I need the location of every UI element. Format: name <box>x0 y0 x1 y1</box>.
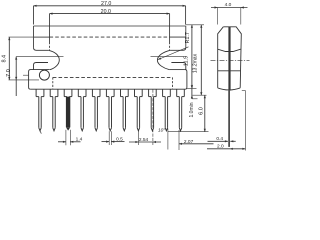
dimension 4.0 line <box>211 7 248 9</box>
side view 4.0 extension lines <box>217 8 219 25</box>
pin 3 shoulder <box>63 89 65 96</box>
dimension 2.54 line <box>129 141 161 143</box>
svg-text:0.4: 0.4 <box>216 136 223 142</box>
body right edge upper <box>185 26 187 47</box>
side chord line <box>218 70 241 72</box>
mounting hole <box>39 70 49 80</box>
dimension 7.0 line <box>15 57 17 96</box>
pin 10 extension line <box>167 129 169 150</box>
extension line hole center <box>23 74 28 76</box>
pin 11 shoulder <box>176 89 178 96</box>
dimension 8.4 line <box>8 37 10 80</box>
svg-text:10°: 10° <box>158 128 165 134</box>
extension tick <box>192 98 198 100</box>
heatsink lower edge (left visible) <box>34 36 50 38</box>
pin 4 shoulder <box>77 89 79 96</box>
svg-text:1.0min: 1.0min <box>189 102 195 117</box>
dimension 1.0min line <box>191 85 193 100</box>
pin 1 shoulder <box>35 89 37 96</box>
left ear outline <box>49 50 60 69</box>
radius R1.7 leader <box>158 47 189 60</box>
left tab top edge <box>34 69 50 71</box>
svg-text:20.0: 20.0 <box>101 9 111 15</box>
dimension 27.0 extension lines <box>33 6 35 25</box>
pin 5 shoulder <box>91 89 93 96</box>
svg-text:7.0: 7.0 <box>6 69 12 77</box>
dimension 27.0 line <box>34 5 186 7</box>
side parting line <box>218 49 241 51</box>
svg-text:0.5: 0.5 <box>116 136 123 142</box>
dimension 0.5 extension lines <box>108 131 110 145</box>
pin 6 lead <box>108 97 110 128</box>
pin 7 lead <box>122 97 124 128</box>
svg-text:2.07: 2.07 <box>184 139 194 145</box>
dimension 11.9 line <box>191 25 193 89</box>
side heatsink tab edge <box>228 27 230 91</box>
right mounting tab <box>185 70 187 90</box>
dimension 2.54 extension line solid <box>137 130 139 145</box>
heatsink slot right <box>169 26 171 42</box>
dimension 1.4 extension lines <box>65 130 67 146</box>
pin 3 wide lead (dark) <box>66 97 70 128</box>
side pin <box>228 91 230 147</box>
pin 6 shoulder <box>105 89 107 96</box>
svg-text:R1.7: R1.7 <box>185 32 191 43</box>
pin 10 lead <box>164 97 166 128</box>
svg-text:13.2max: 13.2max <box>192 53 198 73</box>
pin 1 lead <box>38 97 40 128</box>
pin 10 shoulder <box>162 89 164 96</box>
dimension 1.4 line <box>58 141 66 143</box>
svg-text:8.4: 8.4 <box>2 55 8 63</box>
body top edge <box>34 25 186 27</box>
heatsink lower edge (right visible) <box>170 36 186 38</box>
pin 4 lead <box>80 97 82 128</box>
dimension 6.0 line <box>204 95 206 132</box>
extension line pin seat <box>9 79 40 81</box>
pin 2 lead <box>52 97 54 128</box>
dimension 13.2max line <box>200 25 202 95</box>
pin 7 shoulder <box>120 89 122 96</box>
heatsink slot left <box>49 26 51 42</box>
right ear outline <box>157 50 170 69</box>
stray mark <box>40 131 41 133</box>
pin 5 lead <box>94 97 96 128</box>
left shoulder top line <box>34 47 49 50</box>
right shoulder top line <box>170 47 186 50</box>
left mounting tab <box>29 70 34 90</box>
pin 2 shoulder <box>49 89 51 96</box>
pin 11 lead <box>178 97 180 128</box>
right shoulder bottom line <box>171 63 185 70</box>
dimension 20.0 extension lines <box>49 14 51 26</box>
hidden slug outline <box>53 76 173 78</box>
extension line body bottom right <box>187 87 197 89</box>
side center line <box>211 60 250 62</box>
extension line body top right <box>186 24 204 26</box>
left shoulder bottom line <box>34 63 49 70</box>
svg-text:1.4: 1.4 <box>76 136 83 142</box>
svg-text:4.0: 4.0 <box>225 2 232 8</box>
pin 9 shoulder <box>148 89 150 96</box>
svg-text:2.54: 2.54 <box>139 137 149 143</box>
right tab top edge <box>170 69 185 71</box>
left ear center line <box>16 56 63 58</box>
svg-text:2.0: 2.0 <box>217 143 224 149</box>
body bottom edge <box>31 88 185 90</box>
dimension 2.07 line <box>179 143 214 145</box>
body left edge upper <box>33 26 35 47</box>
pin 9 lead <box>150 97 152 128</box>
pin 11 extension line <box>178 130 180 150</box>
pin 8 shoulder <box>134 89 136 96</box>
svg-text:11.9: 11.9 <box>184 56 190 66</box>
pin 8 lead <box>136 97 138 128</box>
svg-text:6.0: 6.0 <box>198 107 204 115</box>
svg-text:27.0: 27.0 <box>101 1 111 7</box>
dimension 20.0 line <box>50 13 170 15</box>
extension line heatsink bottom <box>9 36 34 38</box>
dimension 0.5 line <box>102 141 110 143</box>
heatsink lower edge (hidden) <box>50 36 170 38</box>
extension line shoulder bottom right <box>192 94 206 96</box>
side body bottom arc <box>218 88 241 90</box>
side body outline <box>223 27 241 88</box>
dimension 2.54 extension line center <box>152 90 154 146</box>
dimension 2.0 line <box>207 148 245 150</box>
dimension 0.4 line <box>208 140 228 142</box>
right ear center line <box>151 56 185 58</box>
pin tip reference line <box>168 131 209 133</box>
back surface extension line <box>244 91 246 151</box>
